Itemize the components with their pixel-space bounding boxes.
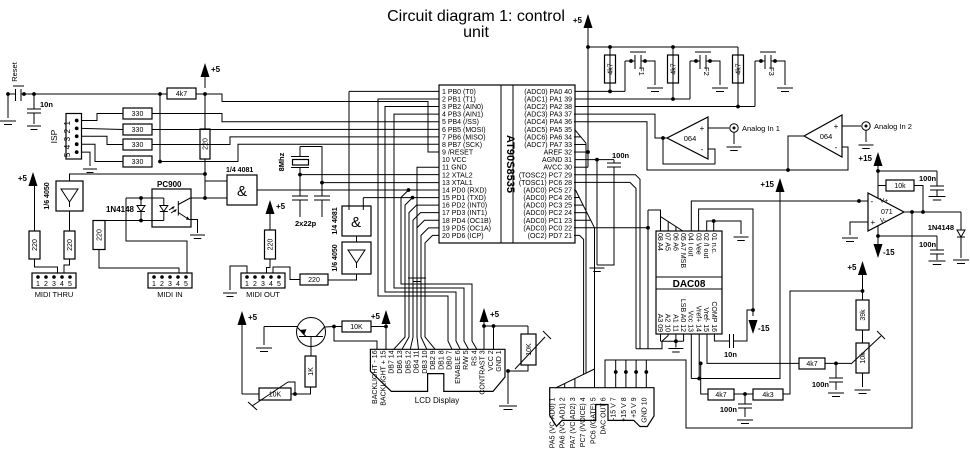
svg-text:A2 10: A2 10 — [664, 314, 671, 332]
power +15 arrow — [776, 178, 785, 192]
svg-text:1: 1 — [152, 281, 156, 288]
wire 4k3 up — [783, 291, 863, 394]
wire agnd — [575, 159, 614, 161]
svg-text:330: 330 — [132, 159, 144, 166]
wire PB0 to gate — [349, 90, 439, 92]
wire buffer out — [328, 274, 357, 280]
power +5 arrow — [29, 172, 38, 186]
power +5 arrow — [480, 308, 489, 322]
svg-text:064: 064 — [684, 134, 697, 143]
wire PB1 bus — [378, 99, 452, 349]
capacitor 10n — [33, 94, 35, 109]
wire — [82, 114, 124, 121]
svg-text:PC6 (/GATE) 5: PC6 (/GATE) 5 — [590, 397, 597, 444]
wire output — [904, 211, 961, 213]
svg-text:3 PB2 (AIN0): 3 PB2 (AIN0) — [442, 104, 483, 111]
resistor 220 thru1 — [29, 231, 40, 259]
svg-text:1/6 4050: 1/6 4050 — [332, 244, 339, 271]
svg-text:(ADC5) PA5 35: (ADC5) PA5 35 — [524, 127, 572, 134]
svg-text:+5: +5 — [18, 174, 28, 183]
svg-text:20 PD6 (ICP): 20 PD6 (ICP) — [442, 233, 484, 240]
wire dac data bottom — [636, 341, 662, 349]
wire DAC snake — [647, 210, 649, 349]
svg-text:Vref+ 14: Vref+ 14 — [694, 306, 701, 333]
resistor 220 vertical — [200, 129, 210, 159]
svg-text:DB2 9: DB2 9 — [430, 350, 437, 370]
wire feedback — [878, 185, 886, 187]
wire Vref- to 4k7 — [707, 334, 799, 363]
svg-text:39k: 39k — [860, 309, 867, 321]
resistor 220 midiout2 — [265, 230, 276, 259]
svg-text:+5 V 9: +5 V 9 — [631, 397, 638, 418]
PC900 transistor — [177, 201, 179, 216]
svg-text:+5: +5 — [211, 65, 221, 74]
svg-text:14 PD0 (RXD): 14 PD0 (RXD) — [442, 187, 487, 194]
wire bus vertical to connector — [594, 228, 596, 388]
svg-text:18 PD4 (OC1B): 18 PD4 (OC1B) — [442, 218, 491, 225]
svg-text:PC7 (/VOICE) 4: PC7 (/VOICE) 4 — [580, 397, 587, 447]
node — [203, 172, 207, 176]
transistor Q1 — [297, 318, 326, 347]
wire +5 rail — [588, 46, 738, 48]
wire TXD branch — [394, 198, 413, 350]
svg-text:08 A4: 08 A4 — [656, 233, 663, 251]
wire +15 to dac — [691, 192, 780, 379]
svg-text:F3: F3 — [767, 67, 776, 76]
svg-text:F2: F2 — [702, 67, 711, 76]
svg-text:+5: +5 — [490, 310, 500, 319]
potentiometer 10k out — [856, 343, 869, 373]
svg-text:1: 1 — [63, 121, 72, 126]
svg-text:Vcc 13: Vcc 13 — [687, 311, 694, 333]
svg-text:MIDI OUT: MIDI OUT — [246, 290, 280, 299]
svg-text:8Mhz: 8Mhz — [277, 152, 286, 171]
svg-text:DB0 7: DB0 7 — [447, 350, 454, 370]
power +15 arrow 071 — [874, 152, 883, 166]
svg-text:13 XTAL1: 13 XTAL1 — [442, 180, 473, 187]
svg-text:(TOSC2) PC7 29: (TOSC2) PC7 29 — [519, 172, 572, 179]
svg-text:-15: -15 — [883, 248, 895, 257]
svg-text:-: - — [871, 197, 874, 206]
svg-text:1N4148: 1N4148 — [928, 223, 954, 232]
svg-text:10n: 10n — [40, 100, 53, 109]
wire backlight plus — [385, 327, 387, 352]
svg-text:1/4 4081: 1/4 4081 — [226, 167, 253, 174]
node — [203, 92, 207, 96]
svg-text:100n: 100n — [812, 380, 830, 389]
power +5 arrow — [201, 63, 210, 77]
svg-text:1/4 4081: 1/4 4081 — [332, 207, 339, 234]
wire PD fan — [402, 205, 439, 349]
ISP pins — [75, 119, 79, 123]
wire pc900 collector — [190, 197, 227, 199]
wire reset rail — [196, 94, 439, 152]
opamp 064 B — [804, 115, 842, 157]
svg-text:02 /I out: 02 /I out — [702, 233, 709, 258]
pushbutton Reset — [13, 85, 24, 87]
resistor 4k7 div — [708, 389, 734, 400]
svg-text:220: 220 — [32, 239, 39, 251]
svg-text:(ADC4) PA4 36: (ADC4) PA4 36 — [524, 119, 572, 126]
svg-text:F1: F1 — [637, 67, 646, 76]
wire — [152, 128, 439, 130]
svg-text:+5: +5 — [847, 263, 857, 272]
wire — [267, 259, 271, 273]
svg-text:GND 10: GND 10 — [641, 397, 648, 422]
wire — [242, 393, 259, 395]
svg-text:DB3 10: DB3 10 — [422, 350, 429, 373]
wire gate B inputs — [363, 197, 439, 199]
svg-text:DB4 11: DB4 11 — [414, 350, 421, 373]
svg-text:-15 V 7: -15 V 7 — [611, 397, 618, 420]
svg-text:10n: 10n — [724, 350, 737, 359]
svg-text:BACKLIGHT - 16: BACKLIGHT - 16 — [372, 350, 379, 404]
connector MIDI OUT — [241, 273, 285, 288]
svg-text:19 PD5 (OC1A): 19 PD5 (OC1A) — [442, 225, 491, 232]
svg-text:3: 3 — [261, 281, 265, 288]
svg-text:MIDI IN: MIDI IN — [157, 290, 182, 299]
svg-text:+5: +5 — [371, 312, 381, 321]
connector J2 signal fan — [556, 369, 595, 388]
svg-text:&: & — [351, 214, 361, 231]
svg-text:03 Vee: 03 Vee — [694, 233, 701, 255]
wire — [371, 326, 386, 328]
node — [139, 196, 143, 200]
wire 064A out — [574, 114, 667, 138]
svg-text:AREF 32: AREF 32 — [544, 150, 573, 157]
wire Iout to 071 — [691, 201, 859, 231]
svg-text:-: - — [835, 143, 838, 152]
svg-text:DB5 12: DB5 12 — [405, 350, 412, 373]
wire 064B feedback — [788, 147, 848, 170]
wire 064B in from chip — [574, 122, 788, 170]
wire gate output to PD0 — [257, 189, 439, 191]
connector ISP — [66, 114, 82, 160]
svg-text:ENABLE 6: ENABLE 6 — [455, 350, 462, 384]
svg-text:+: + — [834, 122, 839, 131]
svg-text:2 PB1 (T1): 2 PB1 (T1) — [442, 97, 476, 104]
wire GND pin11 — [417, 167, 439, 275]
wire Vplus rail — [878, 170, 937, 172]
wire — [35, 259, 58, 273]
svg-text:5: 5 — [68, 281, 72, 288]
svg-text:3: 3 — [168, 281, 172, 288]
svg-text:071: 071 — [881, 209, 893, 216]
svg-text:1 PB0 (T0): 1 PB0 (T0) — [442, 89, 476, 96]
svg-text:(ADC2) PA2 38: (ADC2) PA2 38 — [524, 104, 572, 111]
wire row40 — [575, 90, 625, 92]
svg-text:4: 4 — [176, 281, 180, 288]
wire avcc — [587, 47, 589, 167]
wire — [527, 326, 529, 334]
wire pc6 bus — [574, 182, 636, 348]
resistor 330 b — [123, 124, 152, 135]
wire isp gnd — [82, 152, 91, 166]
svg-text:-: - — [701, 145, 704, 154]
svg-text:12 XTAL2: 12 XTAL2 — [442, 172, 473, 179]
svg-text:11 GND: 11 GND — [442, 165, 467, 172]
wire pc7 bus — [574, 175, 640, 349]
wire Vminus — [877, 226, 879, 244]
svg-text:01 n.c.: 01 n.c. — [710, 233, 717, 254]
wire Vee — [699, 209, 753, 316]
wire gate-buffer — [356, 236, 358, 242]
LCD display outline — [370, 349, 505, 391]
potentiometer 10K backlight — [259, 388, 291, 400]
wire collector — [325, 326, 335, 329]
svg-text:5: 5 — [184, 281, 188, 288]
ground — [7, 94, 9, 118]
wire pa5-pa7 bus entry — [575, 129, 587, 143]
wire row39 — [575, 98, 690, 100]
svg-text:Analog In 2: Analog In 2 — [874, 122, 912, 131]
svg-text:MIDI THRU: MIDI THRU — [35, 290, 74, 299]
wire 4050 out — [69, 211, 71, 231]
svg-text:COMP 16: COMP 16 — [710, 301, 717, 332]
svg-text:+: + — [700, 124, 705, 133]
resistor 10K backlight — [342, 321, 371, 332]
wire +5 column — [204, 94, 206, 129]
wire — [82, 136, 124, 144]
svg-text:-15: -15 — [758, 324, 770, 333]
wire pd7 bus — [574, 235, 584, 374]
wire 4050 input — [70, 174, 206, 181]
svg-text:04 I out: 04 I out — [687, 233, 694, 256]
svg-text:DB1 8: DB1 8 — [438, 350, 445, 370]
svg-text:330: 330 — [132, 142, 144, 149]
wire — [152, 114, 439, 122]
wire backlight minus — [334, 327, 377, 352]
svg-text:4k7: 4k7 — [670, 63, 677, 74]
svg-text:6 PB5 (MOSI): 6 PB5 (MOSI) — [442, 127, 486, 134]
svg-text:4: 4 — [60, 281, 64, 288]
svg-text:(TOSC1) PC6 28: (TOSC1) PC6 28 — [519, 180, 572, 187]
svg-text:4k7: 4k7 — [607, 63, 614, 74]
svg-text:(OC2) PD7 21: (OC2) PD7 21 — [528, 233, 572, 240]
svg-text:10K: 10K — [350, 324, 363, 331]
wire led top rail — [126, 197, 164, 199]
svg-text:9 /RESET: 9 /RESET — [442, 150, 474, 157]
resistor 4k7 out — [799, 358, 825, 369]
wire DAC OUT — [605, 212, 912, 428]
svg-text:4k3: 4k3 — [762, 392, 773, 399]
switches F1 F2 F3 — [608, 45, 612, 49]
connector MIDI THRU — [32, 273, 76, 288]
wire filter — [701, 363, 708, 394]
connector MIDI IN — [148, 273, 192, 288]
svg-text:Analog In 1: Analog In 1 — [742, 124, 780, 133]
potentiometer 10k contrast — [521, 334, 536, 365]
svg-text:4 PB3 (AIN1): 4 PB3 (AIN1) — [442, 112, 483, 119]
svg-text:&: & — [237, 183, 247, 200]
svg-text:2x22p: 2x22p — [295, 219, 317, 228]
svg-text:PA5 (VC-AD0) 1: PA5 (VC-AD0) 1 — [550, 397, 557, 448]
svg-text:AGND 31: AGND 31 — [542, 157, 572, 164]
wire reset-330 link — [159, 94, 161, 162]
wire RXD branch — [401, 190, 477, 349]
power +5 arrow — [266, 200, 275, 214]
svg-text:330: 330 — [132, 111, 144, 118]
wire 064B out — [788, 136, 804, 170]
svg-text:16 PD2 (INT0): 16 PD2 (INT0) — [442, 203, 487, 210]
wire plus input — [850, 222, 868, 235]
wire gate inputs — [205, 180, 227, 182]
wire xtal1 — [322, 182, 439, 184]
wire — [82, 144, 124, 161]
svg-text:RS 4: RS 4 — [471, 350, 478, 366]
svg-text:7 PB6 (MISO): 7 PB6 (MISO) — [442, 134, 486, 141]
wire chip data bus entry — [576, 190, 595, 228]
wire — [160, 144, 439, 161]
svg-text:A1 11: A1 11 — [671, 314, 678, 332]
svg-text:R/W 5: R/W 5 — [463, 350, 470, 370]
wire — [8, 93, 15, 95]
svg-text:4: 4 — [269, 281, 273, 288]
svg-text:2: 2 — [44, 281, 48, 288]
svg-text:V+: V+ — [880, 198, 888, 205]
node — [743, 392, 747, 396]
wire — [64, 259, 70, 273]
wire — [273, 267, 300, 280]
wire — [82, 128, 124, 129]
svg-text:5: 5 — [63, 152, 72, 157]
svg-text:2: 2 — [253, 281, 257, 288]
svg-text:4: 4 — [63, 144, 72, 149]
svg-text:100n: 100n — [919, 240, 937, 249]
svg-text:100n: 100n — [919, 174, 937, 183]
capacitor 10n dac — [714, 334, 729, 341]
svg-text:(ADC6) PA6 34: (ADC6) PA6 34 — [524, 134, 572, 141]
svg-text:220: 220 — [67, 239, 74, 251]
power +5 arrow — [382, 310, 391, 324]
svg-text:8 PB7 (SCK): 8 PB7 (SCK) — [442, 142, 482, 149]
svg-text:1K: 1K — [308, 367, 315, 376]
svg-text:VCC 2: VCC 2 — [488, 350, 495, 371]
wire — [152, 137, 439, 145]
wire PB3 bus — [394, 114, 469, 349]
wire PB2 bus — [385, 107, 460, 350]
wire base down — [310, 337, 312, 357]
svg-text:3: 3 — [63, 136, 72, 141]
opamp 064 A — [667, 117, 708, 159]
PC900 LED — [163, 198, 165, 206]
svg-text:+15: +15 — [858, 154, 872, 163]
power +5 arrow — [584, 14, 593, 28]
svg-text:+15 V 8: +15 V 8 — [621, 397, 628, 421]
resistor 330 c — [123, 139, 152, 150]
svg-text:(ADC0) PC4 26: (ADC0) PC4 26 — [523, 195, 572, 202]
svg-text:LSB A0 12: LSB A0 12 — [679, 299, 686, 332]
svg-text:4k7: 4k7 — [806, 361, 817, 368]
svg-text:4k7: 4k7 — [735, 63, 742, 74]
svg-text:V-: V- — [880, 218, 886, 225]
capacitor 100n out — [834, 362, 838, 366]
power -15 arrow 071 — [874, 244, 883, 258]
node — [332, 325, 336, 329]
node — [6, 92, 10, 96]
svg-text:(ADC0) PC2 24: (ADC0) PC2 24 — [523, 210, 572, 217]
power -15 arrow — [749, 320, 758, 334]
svg-text:+15: +15 — [760, 180, 774, 189]
resistor 220 midiin — [93, 221, 105, 250]
resistor 220 thru2 — [64, 231, 75, 259]
svg-text:10k: 10k — [894, 183, 906, 190]
svg-text:+5: +5 — [573, 16, 583, 25]
resistor 220 midiout — [300, 274, 328, 285]
svg-text:330: 330 — [132, 127, 144, 134]
wire /Iout gnd — [707, 221, 741, 234]
capacitor 22p a — [292, 195, 308, 197]
svg-text:+5: +5 — [276, 202, 286, 211]
svg-text:(ADC3) PA3 37: (ADC3) PA3 37 — [524, 112, 572, 119]
svg-text:Reset: Reset — [10, 61, 19, 82]
svg-text:4k7: 4k7 — [176, 91, 187, 98]
svg-text:+: + — [871, 218, 876, 227]
svg-text:2: 2 — [160, 281, 164, 288]
svg-text:DB6 13: DB6 13 — [397, 350, 404, 373]
wire pot — [862, 330, 864, 343]
svg-text:GND 1: GND 1 — [496, 350, 503, 372]
svg-text:10K: 10K — [269, 391, 282, 398]
svg-text:05 A7 MSB: 05 A7 MSB — [679, 233, 686, 268]
svg-text:LCD Display: LCD Display — [415, 396, 459, 405]
wire xtal top — [300, 147, 322, 183]
svg-text:Vref- 15: Vref- 15 — [702, 307, 709, 332]
connector J2 supply pins — [615, 360, 617, 388]
opamp 071 — [868, 193, 904, 231]
svg-text:2: 2 — [63, 128, 72, 133]
wire gnd midi out — [230, 266, 247, 290]
svg-text:A3 09: A3 09 — [656, 314, 663, 332]
capacitor 22p b — [314, 195, 330, 197]
resistor 330 a — [123, 108, 152, 119]
resistor 4k7 reset — [167, 88, 196, 99]
svg-text:220: 220 — [308, 277, 320, 284]
optocoupler PC900 box — [152, 189, 191, 227]
svg-text:CONTRAST 3: CONTRAST 3 — [480, 350, 487, 394]
svg-text:unit: unit — [463, 24, 489, 41]
svg-text:1N4148: 1N4148 — [106, 205, 135, 214]
power +5 arrow — [858, 261, 867, 275]
svg-text:3: 3 — [52, 281, 56, 288]
wire — [295, 387, 311, 394]
wire vcc rail — [484, 325, 528, 327]
buffer 1/6 4050 A — [56, 181, 83, 211]
svg-text:(ADC1) PA1 39: (ADC1) PA1 39 — [524, 97, 572, 104]
svg-text:DB7 14: DB7 14 — [389, 350, 396, 373]
connector Analog In 1 — [708, 127, 729, 129]
wire 064A feedback — [663, 138, 715, 164]
svg-text:064: 064 — [820, 132, 833, 141]
wire led bottom rail — [99, 220, 164, 222]
svg-text:220: 220 — [267, 239, 274, 251]
wire — [126, 198, 187, 273]
connector Analog In 2 — [842, 125, 861, 127]
svg-text:5 PB4 (/SS): 5 PB4 (/SS) — [442, 119, 479, 126]
wire — [99, 250, 179, 274]
svg-text:4k7: 4k7 — [715, 392, 726, 399]
wire pc900 emitter gnd — [189, 220, 198, 234]
svg-text:PC900: PC900 — [157, 180, 182, 189]
svg-text:BACKLIGHT + 15: BACKLIGHT + 15 — [381, 350, 388, 405]
svg-text:1: 1 — [36, 281, 40, 288]
svg-text:AVCC 30: AVCC 30 — [543, 165, 572, 172]
svg-text:Circuit diagram 1: control: Circuit diagram 1: control — [387, 8, 565, 25]
svg-text:(ADC7) PA7 33: (ADC7) PA7 33 — [524, 142, 572, 149]
wire — [734, 393, 753, 395]
IC U1 AT90S8535 body — [439, 85, 575, 243]
svg-text:10 VCC: 10 VCC — [442, 157, 467, 164]
